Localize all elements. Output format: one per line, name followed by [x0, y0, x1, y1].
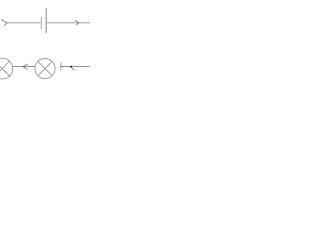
junction dot node — [70, 66, 72, 68]
wire top-left segment — [7, 22, 42, 24]
lamp L1 cross — [0, 61, 10, 76]
stub wire from junction going down-right — [72, 68, 75, 71]
lamp L1 circle (clipped at left edge) — [0, 58, 13, 79]
battery B1 short plate (negative) — [40, 17, 42, 29]
lamp L2 circle — [35, 59, 55, 79]
wire between lamps — [12, 66, 35, 68]
lamp L2 cross — [38, 62, 52, 76]
small dark thickening on wire right of tick — [62, 66, 63, 68]
arrow current direction left (between lamps, open triangle) — [23, 64, 28, 70]
wire top-right segment — [46, 22, 90, 24]
battery B1 long plate (positive) — [45, 8, 47, 33]
faint stub above junction dot — [71, 65, 74, 66]
wire bottom-right segment — [60, 66, 90, 68]
arrow current direction right (top-right) — [75, 20, 79, 25]
arrow current direction right (top-left) — [1, 19, 7, 25]
vertical tick crossing bottom-right wire — [60, 63, 63, 71]
